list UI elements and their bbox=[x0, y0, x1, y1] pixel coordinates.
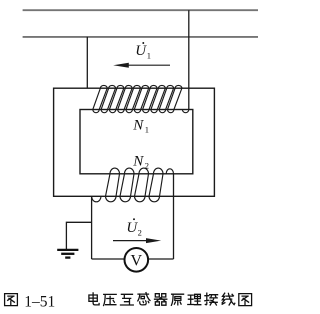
svg-text:1: 1 bbox=[145, 124, 149, 134]
wire measuring loop bottom right segment bbox=[148, 258, 173, 260]
svg-text:N: N bbox=[132, 117, 144, 133]
wire secondary lead right down to measuring loop bbox=[173, 174, 175, 259]
transformer core inner box bbox=[80, 110, 193, 174]
svg-text:U: U bbox=[126, 220, 138, 236]
svg-text:V: V bbox=[131, 253, 143, 270]
wire primary lead left from bus L2 to N1 bbox=[86, 37, 88, 88]
arrow U2 direction bbox=[113, 238, 161, 243]
svg-text:1: 1 bbox=[147, 50, 151, 60]
voltmeter V bbox=[125, 248, 149, 272]
voltage label U1 bbox=[135, 42, 151, 60]
caption title 电压互感器原理接线图 bbox=[89, 293, 252, 306]
wire secondary lead left down to measuring loop bbox=[91, 196, 93, 259]
winding N1 primary coil bbox=[93, 85, 189, 112]
ground bbox=[57, 250, 78, 258]
voltage label U2 bbox=[126, 218, 141, 237]
label N1 bbox=[132, 117, 149, 134]
svg-text:1–51: 1–51 bbox=[24, 293, 55, 310]
wire primary lead right from bus L1 to N1 bbox=[188, 10, 190, 109]
svg-text:U: U bbox=[135, 43, 147, 59]
wire ground branch bbox=[66, 222, 91, 249]
label N2 bbox=[132, 153, 149, 170]
bus line L2 bbox=[23, 36, 258, 38]
svg-text:2: 2 bbox=[138, 227, 142, 237]
caption figure number 图 1-51 bbox=[5, 294, 18, 306]
bus line L1 bbox=[23, 9, 258, 11]
arrow U1 direction bbox=[113, 63, 170, 68]
svg-text:N: N bbox=[132, 153, 144, 169]
winding N2 secondary coil bbox=[92, 168, 174, 202]
transformer case outer box bbox=[54, 88, 215, 196]
wire measuring loop bottom left segment bbox=[92, 258, 125, 260]
